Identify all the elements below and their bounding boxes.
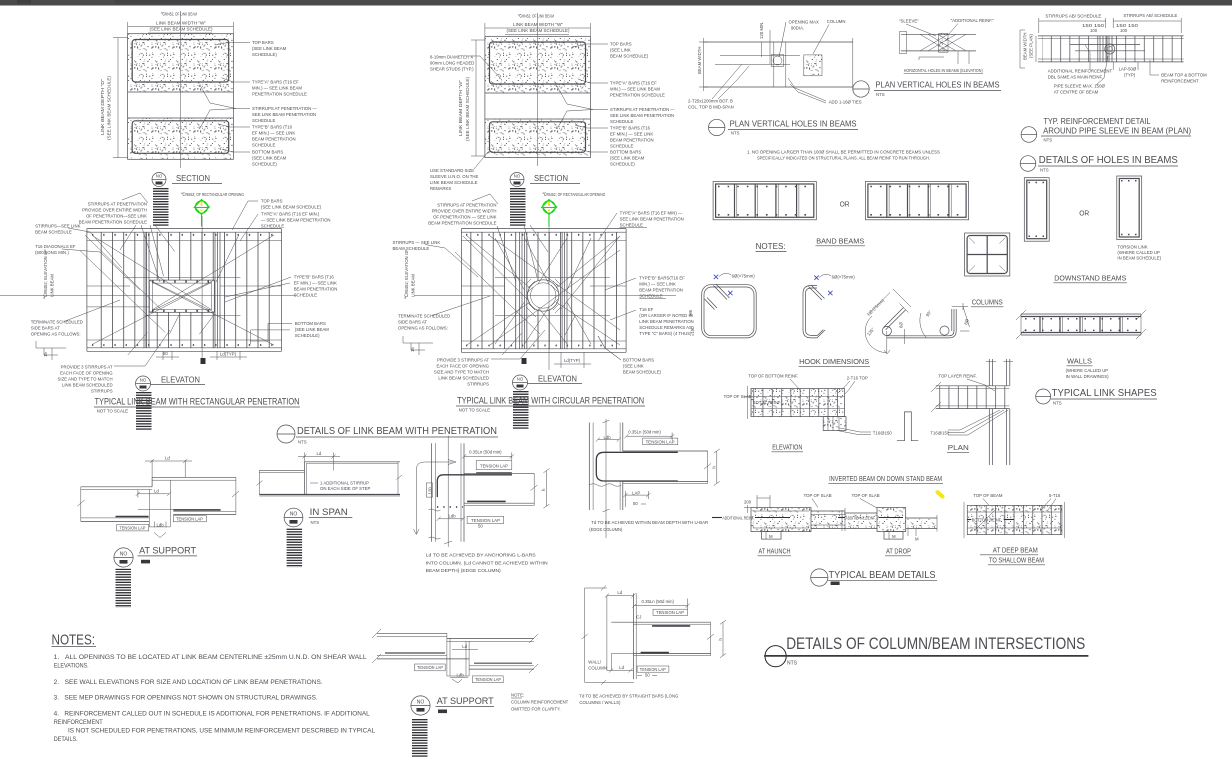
pipe sleeve arcs [1105, 44, 1115, 54]
open stirrup outer path [803, 286, 817, 338]
svg-text:Ld(TYP): Ld(TYP) [220, 352, 237, 357]
at support2 left beam top [377, 632, 447, 634]
svg-text:TYP. REINFORCEMENT DETAIL: TYP. REINFORCEMENT DETAIL [1044, 117, 1151, 126]
edge col1 termination dots [437, 506, 463, 508]
svg-text:(OR LARGER IF NOTED IN: (OR LARGER IF NOTED IN [639, 313, 692, 318]
svg-text:(SEE LINK BEAM SCHEDULE): (SEE LINK BEAM SCHEDULE) [107, 75, 112, 140]
svg-text:TOP BARS: TOP BARS [610, 42, 632, 47]
stirrup beam lap bars [1070, 43, 1140, 45]
beam elev left end ticks [747, 386, 749, 419]
hook mid tick [904, 329, 906, 344]
elevation 1 right labels [225, 199, 337, 342]
walls label [1066, 359, 1110, 379]
in span step verticals [304, 462, 306, 495]
at support2 tension lap boxes [415, 664, 446, 671]
beam elev outline [751, 389, 845, 417]
at support1 tension lap box right [173, 516, 206, 522]
at drop small dims [907, 529, 909, 536]
svg-text:PLAN VERTICAL HOLES IN BEAMS: PLAN VERTICAL HOLES IN BEAMS [876, 81, 1000, 90]
elevation 2 extra diagonals [463, 236, 528, 300]
svg-text:3. SEE MEP DRAWINGS FOR OPEN: 3. SEE MEP DRAWINGS FOR OPENINGS NOT SHO… [54, 696, 318, 702]
hook shape closed stirrup [688, 273, 756, 338]
svg-text:BEAM PENETRATION: BEAM PENETRATION [610, 138, 654, 143]
torsion link label [1117, 245, 1161, 261]
section 2 vertical centerline [537, 13, 539, 166]
wall column straight bar detail [579, 586, 726, 705]
svg-text:Ld: Ld [165, 456, 170, 461]
elevation 1 dense stirrups left of opening [143, 232, 145, 348]
band beam outer rect [713, 182, 816, 220]
at support2 drop bottom [447, 675, 469, 677]
columns corner hooks [969, 238, 975, 244]
hook 90 arc [920, 313, 927, 338]
svg-text:TYPICAL BEAM DETAILS: TYPICAL BEAM DETAILS [829, 569, 936, 581]
wallcol vertical dim line [584, 588, 586, 682]
inverted beam title [829, 476, 944, 497]
wall bar ticks [1025, 318, 1138, 320]
svg-text:200: 200 [744, 500, 752, 505]
band beam section right [865, 182, 968, 220]
svg-text:1. ALL OPENINGS TO BE LOCATE: 1. ALL OPENINGS TO BE LOCATED AT LINK BE… [54, 655, 368, 661]
svg-text:Ld: Ld [317, 451, 322, 456]
elevation 1 opening rect [149, 280, 214, 312]
svg-text:TENSION LAP: TENSION LAP [480, 463, 508, 468]
svg-text:BEAM PENETRATION: BEAM PENETRATION [294, 287, 338, 292]
elevation 1 bottom chord double line [87, 347, 282, 349]
edge col1 bottom thick bar [467, 500, 506, 502]
elevation 1 left edge [86, 229, 88, 352]
lap dim below [1112, 62, 1114, 70]
svg-text:M: M [915, 537, 919, 542]
beams note line [747, 150, 940, 161]
svg-text:NO: NO [290, 512, 298, 518]
elevation 2 opening vertical centerline [548, 216, 550, 370]
at support2 right beam bottom [469, 668, 534, 670]
svg-text:(SEE LINK BEAM: (SEE LINK BEAM [252, 46, 287, 51]
svg-text:2-T16 TOP: 2-T16 TOP [847, 376, 868, 381]
svg-text:MIN.) — SEE LINK BEAM: MIN.) — SEE LINK BEAM [610, 87, 660, 92]
elevation 1 bottom dark tick [201, 358, 206, 364]
svg-text:OPENING AS FOLLOWS:: OPENING AS FOLLOWS: [398, 326, 448, 331]
hook 90 dim bracket [952, 306, 968, 308]
svg-text:STIRRUPS AT PENETRATION —: STIRRUPS AT PENETRATION — [252, 106, 317, 111]
elevation 2 edge dots [466, 234, 622, 236]
svg-text:℃#8452; OF LINK BEAM: ℃#8452; OF LINK BEAM [161, 12, 197, 17]
svg-text:℃#8452; OF LINK BEAM: ℃#8452; OF LINK BEAM [518, 14, 554, 19]
section 1 depth dim line [117, 38, 119, 158]
note column reinforcement [511, 693, 569, 712]
at haunch main stipple block [751, 508, 811, 532]
elevation 2 left labels [393, 194, 546, 387]
section detail 2 (link beam section) [430, 13, 675, 191]
svg-text:(SEE LINK BEAM: (SEE LINK BEAM [295, 327, 330, 332]
in span detail [257, 451, 403, 496]
svg-text:℃#8452; OF RECTANGULAR OPENING: ℃#8452; OF RECTANGULAR OPENING [181, 192, 245, 197]
notes block bottom left [52, 631, 376, 743]
svg-text:TYPE "C" BARS) (4 THUS): TYPE "C" BARS) (4 THUS) [639, 331, 692, 336]
at drop detail [838, 493, 937, 556]
svg-text:STIRRUPS: STIRRUPS [91, 389, 113, 394]
svg-text:AT DEEP BEAM: AT DEEP BEAM [993, 548, 1038, 555]
elevation 2 dense stirrups right of circle [561, 232, 563, 349]
plan T16@150 leaders [948, 410, 1000, 430]
svg-text:0.35Ln (50d min): 0.35Ln (50d min) [469, 449, 502, 454]
svg-text:LINK BEAM DEPTH "W": LINK BEAM DEPTH "W" [458, 79, 463, 136]
plan opening circle [773, 56, 782, 65]
svg-text:PROVIDE 3 STIRRUPS AT: PROVIDE 3 STIRRUPS AT [437, 358, 489, 363]
svg-text:ELEVATON: ELEVATON [161, 376, 200, 385]
at haunch detail [712, 493, 845, 556]
svg-text:REMARKS: REMARKS [430, 186, 451, 191]
svg-text:HORIZONTAL HOLES IN BEAMS (ELE: HORIZONTAL HOLES IN BEAMS (ELEVATION) [904, 68, 983, 73]
elevation 1 right edge [281, 229, 283, 352]
edge column detail 2 (U-bar) [589, 419, 720, 538]
svg-text:SIDE BARS AT: SIDE BARS AT [31, 326, 60, 331]
svg-text:LINK BEAM SCHEDULED: LINK BEAM SCHEDULED [62, 383, 113, 388]
elevation 1 yellow ticks in symbol [201, 202, 203, 207]
section 2 stipple bottom band [485, 119, 591, 158]
at support1 ref stack [116, 569, 132, 608]
svg-text:SCHEDULE): SCHEDULE) [610, 162, 635, 167]
wallcol Ld dim bottom [607, 669, 634, 671]
typical link beam circular title [456, 396, 645, 413]
link hat profile [897, 412, 918, 441]
edge col1 120 dim box [426, 483, 432, 497]
wall end break left [1016, 310, 1026, 320]
svg-text:SECTION: SECTION [534, 174, 568, 183]
svg-text:DETAILS OF LINK BEAM WITH PENE: DETAILS OF LINK BEAM WITH PENETRATION [297, 425, 497, 437]
elevation 2 side bar lines [461, 240, 626, 242]
svg-text:2-T25x1200mm BOT. B: 2-T25x1200mm BOT. B [688, 99, 733, 104]
svg-text:6Ø: 6Ø [899, 322, 904, 328]
svg-text:℃#8452; OF RECTANGULAR OPENING: ℃#8452; OF RECTANGULAR OPENING [542, 192, 606, 197]
svg-text:T16@150: T16@150 [873, 431, 893, 436]
svg-text:NTS: NTS [876, 92, 885, 97]
svg-text:STIRRUPS AT PENETRATION —: STIRRUPS AT PENETRATION — [610, 107, 675, 112]
svg-text:LINK BEAM WIDTH "W": LINK BEAM WIDTH "W" [513, 22, 564, 27]
svg-text:AT HAUNCH: AT HAUNCH [759, 549, 791, 556]
svg-text:100: 100 [1090, 28, 1098, 33]
svg-text:PENETRATION SCHEDULE: PENETRATION SCHEDULE [610, 93, 665, 98]
elevation 2 right edge [625, 229, 627, 353]
svg-text:IS NOT SCHEDULED FOR PENETRATI: IS NOT SCHEDULED FOR PENETRATIONS, USE M… [68, 729, 376, 735]
svg-text:120 MIN.: 120 MIN. [759, 22, 764, 39]
elevation 1 long diagonals [93, 236, 212, 310]
downstand beams title [1054, 276, 1128, 283]
edge col1 column centerline [447, 436, 449, 547]
at support1 right beam thick bar [173, 509, 220, 511]
svg-text:Ld(TYP): Ld(TYP) [564, 358, 581, 363]
plan beam inner bar lines [720, 54, 800, 56]
elevation 1 opening vertical centerline [201, 216, 203, 364]
svg-text:NO: NO [517, 377, 524, 382]
svg-text:(SEE LINK: (SEE LINK [623, 364, 644, 369]
svg-text:TERMINATE SCHEDULED: TERMINATE SCHEDULED [398, 314, 450, 319]
elevation 1 opening edge dots [152, 281, 212, 283]
svg-text:TENSION LAP: TENSION LAP [119, 526, 145, 531]
edge col1 beam bottom [464, 502, 534, 504]
svg-text:BEAM TOP & BOTTOM: BEAM TOP & BOTTOM [1161, 73, 1207, 78]
stirrup schedule beam (top far right) [1020, 13, 1207, 95]
edge col1 column verticals [431, 443, 433, 542]
svg-text:BEAM SCHEDULE): BEAM SCHEDULE) [610, 54, 649, 59]
svg-text:— SEE LINK BEAM PENETRATION: — SEE LINK BEAM PENETRATION [261, 218, 331, 223]
at support1 middle splice verticals [148, 490, 150, 527]
elevation 1 left labels [31, 193, 170, 394]
section 1 width dim line [128, 26, 234, 28]
elevation 2 bottom dim Ld typ [560, 352, 562, 368]
svg-text:TENSION LAP: TENSION LAP [475, 677, 501, 682]
svg-text:WALLS: WALLS [1067, 359, 1092, 366]
downstand inner rect [1027, 180, 1047, 239]
svg-text:NOTES:: NOTES: [756, 242, 786, 251]
svg-text:SCHEDULE: SCHEDULE [620, 223, 644, 228]
svg-text:OMITTED FOR CLARITY.: OMITTED FOR CLARITY. [511, 707, 561, 712]
section 1 title circle [152, 173, 166, 187]
at support detail 1 (bottom left) [78, 456, 240, 538]
svg-text:NOT TO SCALE: NOT TO SCALE [459, 408, 490, 413]
in span bottom [259, 494, 400, 496]
edge col1 beam top [464, 472, 534, 474]
typical beam details title [811, 569, 937, 586]
deep beam verticals [969, 505, 1061, 534]
svg-text:(EDGE COLUMN): (EDGE COLUMN) [589, 527, 623, 532]
svg-text:COLUMNS: COLUMNS [972, 300, 1003, 307]
section title 1 [152, 173, 222, 228]
in span right end [397, 462, 399, 495]
hook dimensions title [799, 359, 871, 366]
elevation 1 ladder stack [136, 392, 152, 431]
at support detail 2 (bottom middle) [372, 629, 538, 683]
edge col1 h dim [545, 471, 547, 507]
svg-text:ADDITIONAL REINF.: ADDITIONAL REINF. [723, 516, 755, 521]
wallcol h dim [722, 622, 724, 655]
svg-text:TOP OF BEAM: TOP OF BEAM [973, 493, 1003, 498]
svg-text:AT SUPPORT: AT SUPPORT [437, 696, 494, 707]
svg-text:15: 15 [43, 352, 48, 357]
in span Ld dim [304, 453, 306, 462]
svg-text:TYPE"B" BARS (T16: TYPE"B" BARS (T16 [610, 126, 651, 131]
wallcol bottom thick bar [641, 652, 669, 654]
svg-text:TENSION LAP: TENSION LAP [471, 518, 500, 523]
svg-text:ADDITIONAL REINF.: ADDITIONAL REINF. [846, 516, 876, 521]
plan column stipple square [804, 55, 822, 76]
wallcol bottom-left bracket [611, 653, 633, 655]
svg-text:M6: M6 [688, 309, 693, 316]
beam elevation with T16@150 (left) [724, 374, 919, 452]
section 1 bottom cage rounded rect [132, 121, 229, 154]
svg-text:IN SPAN: IN SPAN [310, 507, 348, 518]
elevation 2 top chord double line [461, 228, 626, 230]
svg-text:SCHEDULE): SCHEDULE) [252, 52, 277, 57]
svg-text:LINK BEAM WIDTH "W": LINK BEAM WIDTH "W" [156, 21, 207, 26]
svg-text:TYPE"B" BARS (T16: TYPE"B" BARS (T16 [252, 125, 293, 130]
wallcol wall verticals [633, 593, 635, 679]
edge col1 L-bar [437, 475, 512, 497]
section 2 outer rect [485, 36, 591, 157]
hook 135 tail double diagonal [884, 308, 904, 328]
columns inner rounded rect [967, 236, 1007, 274]
section 2 top cage rounded rect [490, 42, 586, 84]
details of column beam intersections title [764, 635, 1088, 667]
hook 90 pin circle [940, 326, 949, 335]
svg-text:LINK BEAM: LINK BEAM [50, 274, 55, 297]
svg-text:SPECIFICALLY INDICATED ON STRU: SPECIFICALLY INDICATED ON STRUCTURAL PLA… [757, 156, 930, 161]
svg-text:ELEVATON: ELEVATON [538, 375, 577, 384]
svg-text:NOT TO SCALE: NOT TO SCALE [97, 409, 128, 414]
in span left end [258, 470, 260, 494]
in span left beam top [259, 469, 304, 471]
svg-text:TENSION LAP: TENSION LAP [646, 439, 675, 444]
svg-text:SECTION: SECTION [176, 174, 210, 183]
svg-text:SIZE AND TYPE TO MATCH: SIZE AND TYPE TO MATCH [58, 377, 113, 382]
elevation 1: link beam with rectangular penetration [0, 192, 296, 364]
svg-text:COLUMNS / WALLS): COLUMNS / WALLS) [579, 700, 621, 705]
edge col1 tension lap box top [476, 461, 512, 470]
elevation 2 yellow ticks in symbol [548, 202, 550, 207]
hook 135 arc [865, 316, 887, 353]
at support1 left beam top [81, 486, 152, 488]
elevation 1 top chord double line [87, 228, 282, 230]
elevation 2 green opening symbol [541, 200, 557, 227]
svg-text:Ld: Ld [619, 665, 624, 670]
svg-text:50: 50 [478, 524, 483, 529]
svg-text:NOTE:: NOTE: [511, 693, 524, 698]
svg-text:SCHEDULE: SCHEDULE [610, 144, 634, 149]
svg-text:IN WALL DRAWINGS): IN WALL DRAWINGS) [1066, 374, 1110, 379]
elevation 2 circle opening [528, 280, 559, 311]
svg-text:STIRRUPS AB/ SCHEDULE: STIRRUPS AB/ SCHEDULE [1045, 14, 1101, 19]
svg-text:0.35Ln (50d min): 0.35Ln (50d min) [642, 599, 675, 604]
svg-text:TYPICAL LINK BEAM WITH CIRCULA: TYPICAL LINK BEAM WITH CIRCULAR PENETRAT… [457, 396, 644, 407]
svg-text:SCHEDULE: SCHEDULE [252, 118, 276, 123]
section 2 bottom cage rounded rect [490, 122, 586, 153]
svg-text:Ldb: Ldb [604, 435, 612, 440]
section detail 1 (link beam section) [100, 11, 317, 168]
svg-text:LINK BEAM: LINK BEAM [411, 274, 416, 297]
svg-text:TYPE"A" BARS (T16 EF: TYPE"A" BARS (T16 EF [252, 80, 299, 85]
elevation 1 bottom dim Ld typ [216, 351, 218, 360]
closed stirrup hook label [719, 273, 731, 276]
elevation 1 bottom dim 50 [162, 351, 164, 360]
at drop tall stipple block [877, 508, 906, 532]
elevation 1 extra diagonals [85, 235, 162, 310]
wall link section [1016, 310, 1146, 339]
elevation 1 side bar lines [87, 240, 282, 242]
svg-text:Ldb: Ldb [457, 673, 465, 678]
svg-text:120: 120 [428, 487, 433, 495]
svg-text:PLAN: PLAN [948, 445, 969, 452]
section 2 stipple top band [485, 36, 591, 93]
svg-text:USE STANDARD SIZE: USE STANDARD SIZE [430, 168, 474, 173]
svg-text:COLUMN REINFORCEMENT: COLUMN REINFORCEMENT [511, 700, 569, 705]
svg-text:ON EACH SIDE OF STEP: ON EACH SIDE OF STEP [320, 486, 371, 491]
svg-text:COLUMN: COLUMN [827, 19, 846, 24]
beam elev mid bar lines [751, 396, 845, 398]
edge col2 beam end break [707, 451, 709, 483]
svg-text:STIRRUPS AB/ SCHEDULE: STIRRUPS AB/ SCHEDULE [1123, 13, 1177, 18]
svg-text:STIRRUPS — SEE LINK: STIRRUPS — SEE LINK [393, 240, 441, 245]
svg-text:NTS: NTS [298, 440, 307, 445]
svg-text:TYPE"B" BARS (T16: TYPE"B" BARS (T16 [294, 275, 335, 280]
svg-text:SCHEDULE: SCHEDULE [261, 224, 285, 229]
svg-text:DETAILS OF COLUMN/BEAM INTERSE: DETAILS OF COLUMN/BEAM INTERSECTIONS [786, 635, 1085, 653]
svg-text:TOP OF SLAB: TOP OF SLAB [852, 493, 880, 498]
hook bar double line [887, 335, 949, 337]
svg-text:BEAM PENETRATION SCHEDULE: BEAM PENETRATION SCHEDULE [428, 221, 496, 226]
open stirrup top tail [809, 287, 823, 301]
closed stirrup hook tails [714, 286, 728, 300]
svg-text:BEAM PENETRATION SCHEDULE: BEAM PENETRATION SCHEDULE [79, 220, 147, 225]
svg-text:Ld TO BE ACHIEVED BY ANCHORING: Ld TO BE ACHIEVED BY ANCHORING L-BARS [426, 553, 536, 558]
svg-text:8-19mm DIAMETER X: 8-19mm DIAMETER X [430, 55, 473, 60]
elevation 1 stirrup verticals [92, 232, 278, 348]
hook dimensions diagram [865, 289, 970, 354]
svg-text:Td TO BE ACHIEVED WITHIN BEAM: Td TO BE ACHIEVED WITHIN BEAM DEPTH WITH… [591, 520, 708, 525]
svg-text:EF MIN.) — SEE LINK: EF MIN.) — SEE LINK [610, 132, 653, 137]
svg-text:TERMINATE SCHEDULED: TERMINATE SCHEDULED [31, 320, 83, 325]
edge col1 Ldb dim [439, 518, 463, 520]
at drop left thin beam [844, 513, 877, 529]
at support2 left beam bottom [377, 658, 469, 660]
svg-text:SCHEDULE: SCHEDULE [252, 143, 276, 148]
elevation 1 opening X cross [149, 280, 214, 312]
elevation title 1 [136, 376, 206, 432]
open stirrup X marks [814, 276, 832, 296]
svg-text:(TYP): (TYP) [1124, 73, 1136, 78]
deep beam stipple [967, 505, 1062, 534]
wallcol left bracket vertical [606, 596, 608, 671]
elevation title 2 [513, 375, 583, 431]
svg-text:STIRRUPS—SEE LINK: STIRRUPS—SEE LINK [35, 224, 81, 229]
at support 1 title [114, 546, 197, 608]
downstand beam section right [1117, 176, 1142, 240]
elevation 2 long diagonals [467, 236, 530, 288]
svg-text:PLAN VERTICAL HOLES IN BEAMS: PLAN VERTICAL HOLES IN BEAMS [730, 120, 857, 129]
svg-text:LINK BEAM DEPTH "D": LINK BEAM DEPTH "D" [100, 78, 105, 135]
columns outer rect [965, 233, 1010, 276]
section title 2 [510, 173, 580, 228]
typ reinforcement detail title [1021, 117, 1191, 143]
svg-text:AROUND PIPE SLEEVE IN BEAM (PL: AROUND PIPE SLEEVE IN BEAM (PLAN) [1043, 127, 1191, 136]
band beam bar ticks [718, 186, 811, 188]
elevation 2 side bar partial lines [495, 277, 610, 279]
at support2 Ld dim [452, 649, 478, 651]
svg-text:BEAM SCHEDULE: BEAM SCHEDULE [35, 230, 72, 235]
at support1 tension lap box left [117, 525, 149, 531]
svg-text:TYPE"A" BARS (T16 EF MIN) —: TYPE"A" BARS (T16 EF MIN) — [620, 211, 683, 216]
elevation 1 side bar partial lines [124, 277, 241, 279]
svg-text:BEAM WIDTH: BEAM WIDTH [697, 47, 702, 74]
edge col2 lap dim below [625, 494, 648, 496]
svg-text:NTS: NTS [311, 520, 320, 525]
elevation 1 dense stirrups right of opening [214, 232, 216, 348]
at support1 left beam thick bar [116, 516, 149, 518]
wall top line [1021, 313, 1141, 315]
open stirrup bottom tail [817, 330, 825, 338]
downstand bar ticks [1029, 182, 1046, 184]
elevation 2 right labels [598, 211, 694, 375]
columns cross horizontal [967, 254, 1007, 256]
svg-text:SEE LINK BEAM PENETRATION: SEE LINK BEAM PENETRATION [620, 217, 684, 222]
svg-text:Ldb: Ldb [157, 522, 165, 527]
edge col2 tension lap box [643, 438, 678, 445]
details of holes in beams title [1020, 154, 1178, 173]
svg-text:TYPE"A" BARS (T16 EF: TYPE"A" BARS (T16 EF [610, 81, 657, 86]
elevation 2 stirrup verticals [466, 232, 622, 349]
elevation 2 bottom bars leader [598, 336, 621, 360]
svg-text:(SEE PLAN): (SEE PLAN) [1029, 34, 1034, 58]
